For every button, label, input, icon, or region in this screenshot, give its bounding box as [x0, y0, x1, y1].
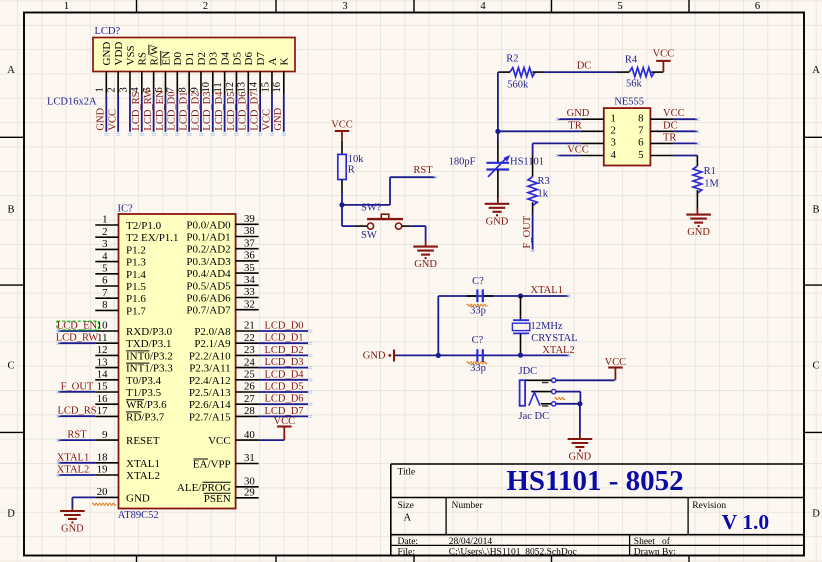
svg-text:3: 3 — [611, 137, 616, 149]
svg-text:8: 8 — [102, 299, 107, 311]
pin 36 P0.3/AD3 — [186, 250, 258, 268]
wire jack pin1 to VCC — [556, 379, 615, 381]
svg-text:P0.7/AD7: P0.7/AD7 — [186, 305, 231, 317]
svg-text:SW?: SW? — [361, 203, 382, 214]
svg-text:GND: GND — [101, 42, 113, 66]
junction jack pins 2/3 — [577, 401, 582, 406]
svg-text:4: 4 — [480, 1, 486, 12]
svg-text:15: 15 — [260, 82, 271, 93]
svg-text:LCD_D2: LCD_D2 — [190, 92, 201, 131]
svg-text:TXD/P3.1: TXD/P3.1 — [126, 338, 172, 350]
wire LCD pin 14 net LCD_D7 — [250, 92, 261, 132]
svg-text:56k: 56k — [626, 79, 643, 90]
svg-text:File:: File: — [398, 548, 415, 558]
wire LCD pin 3 — [129, 95, 131, 132]
svg-text:24: 24 — [244, 356, 255, 368]
svg-text:GND: GND — [687, 227, 710, 238]
svg-text:6: 6 — [638, 137, 644, 149]
svg-text:VCC: VCC — [108, 109, 119, 131]
VCC power port at jack — [605, 357, 627, 380]
capacitor C? 33p (top) — [467, 276, 493, 317]
svg-text:VCC: VCC — [331, 120, 353, 131]
svg-text:GND: GND — [126, 492, 150, 504]
svg-text:C: C — [812, 361, 819, 372]
pin 2 P1.1 — [95, 226, 178, 244]
wire net LCD_EN to IC pin — [57, 321, 98, 332]
svg-text:7: 7 — [638, 125, 644, 137]
svg-text:A: A — [267, 58, 279, 66]
svg-text:P1.7: P1.7 — [126, 305, 146, 317]
wire net XTAL2 — [395, 345, 575, 356]
svg-text:1: 1 — [611, 113, 616, 125]
ground at SW — [413, 247, 438, 271]
NE555 pin 6 — [638, 137, 673, 149]
wire net TR at NE555 pin6 — [663, 132, 697, 143]
pin 26 P2.5/A13 net LCD_D5 — [189, 381, 308, 399]
svg-text:19: 19 — [97, 464, 108, 476]
svg-text:VDD: VDD — [113, 42, 125, 66]
svg-text:P2.4/A12: P2.4/A12 — [189, 375, 231, 387]
pin 28 P2.7/A15 net LCD_D7 — [189, 405, 308, 423]
pin 40 VCC — [208, 429, 284, 447]
wire net LCD_RW to IC pin — [56, 333, 99, 344]
wire LCD pin 5 net LCD_RW — [143, 88, 154, 132]
svg-text:VCC: VCC — [208, 435, 231, 447]
pin 9 RESET, net RST — [58, 429, 160, 447]
pin 25 P2.4/A12 net LCD_D4 — [189, 369, 308, 387]
wire LCD pin 6 net LCD_EN — [155, 90, 166, 132]
wire end marks — [56, 118, 699, 477]
svg-text:D: D — [812, 509, 820, 520]
svg-text:P0.3/AD3: P0.3/AD3 — [186, 256, 231, 268]
svg-text:RST: RST — [413, 165, 433, 176]
svg-text:7: 7 — [102, 287, 108, 299]
svg-text:23: 23 — [244, 344, 255, 356]
svg-text:GND: GND — [96, 107, 107, 130]
junction cap branch/XTAL2 — [436, 353, 441, 358]
svg-text:Drawn By:: Drawn By: — [634, 548, 676, 558]
svg-text:P1.4: P1.4 — [126, 269, 146, 281]
svg-text:LCD_D7: LCD_D7 — [250, 92, 261, 131]
svg-text:GND: GND — [61, 524, 84, 535]
svg-text:XTAL1: XTAL1 — [126, 458, 160, 470]
wire net RST — [342, 165, 435, 205]
resistor R1 1M — [693, 156, 720, 215]
pin 30 ALE/PROG — [177, 476, 259, 494]
wire net VCC at NE555 pin8 — [663, 108, 697, 119]
svg-text:12MHz: 12MHz — [531, 321, 563, 332]
pin 11 TXD/P3.1 — [95, 332, 171, 350]
svg-text:P0.2/AD2: P0.2/AD2 — [186, 244, 230, 256]
pin 37 P0.2/AD2 — [186, 237, 258, 255]
wire LCD pin 8 net LCD_D1 — [179, 92, 190, 132]
svg-text:LCD_RW: LCD_RW — [143, 88, 154, 131]
capacitor C? 33p (bottom) — [470, 335, 486, 374]
svg-text:34: 34 — [244, 274, 255, 286]
svg-text:P2.7/A15: P2.7/A15 — [189, 411, 231, 423]
svg-text:GND: GND — [273, 107, 284, 130]
svg-text:LCD_D1: LCD_D1 — [179, 92, 190, 131]
svg-text:33: 33 — [244, 286, 255, 298]
svg-text:29: 29 — [244, 487, 255, 499]
svg-text:Number: Number — [452, 501, 484, 511]
svg-text:1: 1 — [102, 214, 107, 226]
svg-text:Date:: Date: — [398, 537, 419, 547]
svg-text:PSEN: PSEN — [204, 493, 231, 505]
svg-text:F_OUT: F_OUT — [522, 215, 533, 248]
pin 34 P0.5/AD5 — [186, 274, 258, 292]
wire LCD pin 9 net LCD_D2 — [190, 92, 201, 132]
resistor R2 560k — [498, 54, 544, 91]
svg-text:TR: TR — [568, 120, 581, 131]
pin 4 P1.3 — [95, 250, 146, 268]
svg-text:31: 31 — [244, 452, 255, 464]
svg-text:2: 2 — [102, 226, 107, 238]
svg-text:D6: D6 — [243, 52, 255, 66]
junction XTAL1/crystal — [518, 293, 523, 298]
svg-text:1k: 1k — [538, 189, 549, 200]
svg-text:Sheet of: Sheet of — [634, 536, 671, 547]
svg-text:6: 6 — [102, 275, 108, 287]
wire SW to ground — [410, 226, 425, 247]
svg-text:2: 2 — [203, 1, 208, 12]
svg-text:16: 16 — [272, 82, 283, 93]
svg-text:6: 6 — [755, 1, 760, 12]
svg-text:Size: Size — [398, 501, 414, 511]
svg-text:LCD_D5: LCD_D5 — [264, 382, 303, 393]
svg-text:R: R — [348, 165, 355, 176]
svg-text:28/04/2014: 28/04/2014 — [449, 537, 493, 547]
wire XTAL1 left branch down — [437, 296, 439, 355]
svg-text:JDC: JDC — [519, 366, 538, 377]
svg-text:VCC: VCC — [605, 357, 627, 368]
svg-text:RXD/P3.0: RXD/P3.0 — [126, 326, 173, 338]
pin 19 XTAL2 — [57, 464, 160, 482]
svg-text:EN: EN — [160, 51, 172, 66]
pin 33 P0.6/AD6 — [186, 286, 258, 304]
pin 6 P1.5 — [95, 275, 146, 293]
ground at IC pin20 — [60, 511, 85, 535]
pushbutton SW? SW — [356, 203, 411, 242]
svg-text:16: 16 — [97, 393, 108, 405]
svg-text:38: 38 — [244, 225, 255, 237]
svg-text:P2.6/A14: P2.6/A14 — [189, 399, 231, 411]
svg-text:P1.3: P1.3 — [126, 257, 146, 269]
svg-text:INT0/P3.2: INT0/P3.2 — [126, 350, 173, 362]
svg-text:T0/P3.4: T0/P3.4 — [126, 375, 162, 387]
svg-text:Jac DC: Jac DC — [519, 411, 550, 422]
svg-text:R3: R3 — [538, 176, 550, 187]
pin 10 RXD/P3.0 — [95, 320, 172, 338]
wire net VCC at NE555 pin4 — [558, 145, 589, 156]
svg-text:22: 22 — [244, 332, 255, 344]
svg-text:P2.2/A10: P2.2/A10 — [189, 350, 231, 362]
svg-text:4: 4 — [611, 149, 617, 161]
svg-text:XTAL1: XTAL1 — [57, 452, 89, 463]
svg-text:XTAL2: XTAL2 — [126, 470, 160, 482]
wire LCD pin 12 net LCD_D5 — [226, 92, 237, 132]
svg-text:AT89C52: AT89C52 — [118, 510, 159, 521]
pin 20 GND — [95, 486, 150, 504]
svg-text:C: C — [7, 361, 14, 372]
NE555 pin 4 — [581, 149, 617, 161]
ground at HS1101 — [485, 204, 510, 228]
svg-text:9: 9 — [102, 429, 107, 441]
pin 24 P2.3/A11 net LCD_D3 — [189, 356, 308, 374]
svg-text:D0: D0 — [172, 52, 184, 66]
pin 16 WR/P3.6 — [95, 393, 167, 411]
svg-text:LCD_D6: LCD_D6 — [264, 394, 303, 405]
wire net XTAL1 — [438, 285, 568, 296]
wire net TR at NE555 pin2 — [498, 120, 582, 131]
connector JDC Jac DC — [519, 366, 556, 422]
compile squiggle jack — [555, 397, 565, 399]
svg-text:V 1.0: V 1.0 — [722, 510, 769, 534]
svg-text:LCD_D4: LCD_D4 — [264, 369, 304, 380]
pin 12 INT0/P3.2 — [95, 344, 172, 362]
svg-text:3: 3 — [118, 87, 129, 92]
svg-text:14: 14 — [97, 369, 108, 381]
svg-text:LCD16x2A: LCD16x2A — [47, 97, 97, 108]
svg-text:DC: DC — [663, 120, 678, 131]
svg-text:D: D — [7, 509, 15, 520]
svg-text:LCD_RS: LCD_RS — [131, 91, 142, 130]
svg-text:P0.0/AD0: P0.0/AD0 — [186, 219, 231, 231]
svg-text:D7: D7 — [255, 52, 267, 66]
svg-text:TR: TR — [663, 132, 676, 143]
junction crystal/XTAL2 — [518, 353, 523, 358]
svg-text:LCD_D0: LCD_D0 — [167, 92, 178, 131]
svg-text:18: 18 — [97, 452, 108, 464]
svg-text:SW: SW — [361, 230, 377, 241]
pin 5 P1.4 — [95, 263, 146, 281]
svg-text:39: 39 — [244, 213, 255, 225]
wire LCD pin 1 net GND — [96, 95, 107, 132]
svg-text:DC: DC — [577, 60, 592, 71]
svg-text:LCD_D3: LCD_D3 — [202, 92, 213, 131]
svg-text:35: 35 — [244, 262, 255, 274]
svg-text:P2.0/A8: P2.0/A8 — [194, 326, 231, 338]
svg-text:IC?: IC? — [118, 204, 134, 215]
svg-text:10: 10 — [201, 82, 212, 93]
svg-text:VSS: VSS — [125, 45, 137, 65]
NE555 pin 2 — [581, 125, 616, 137]
pin 39 P0.0/AD0 — [186, 213, 258, 231]
svg-text:D4: D4 — [220, 52, 232, 66]
svg-text:NE555: NE555 — [614, 97, 644, 108]
VCC power port at R — [331, 120, 353, 141]
svg-text:40: 40 — [244, 429, 255, 441]
compile squiggle top cap — [467, 304, 487, 306]
svg-text:12: 12 — [225, 82, 236, 93]
pin 14 T0/P3.4 — [95, 369, 161, 387]
svg-text:5: 5 — [617, 1, 622, 12]
wire net F_OUT — [522, 214, 533, 251]
wire net LCD_RS to IC pin — [57, 406, 96, 417]
pin 13 INT1/P3.3 — [95, 356, 173, 374]
svg-text:26: 26 — [244, 381, 255, 393]
svg-text:P1.2: P1.2 — [126, 244, 146, 256]
svg-text:VCC: VCC — [653, 49, 675, 60]
wire pin20 to ground — [72, 497, 95, 511]
svg-text:R4: R4 — [625, 55, 638, 66]
pin 27 P2.6/A14 net LCD_D6 — [189, 393, 308, 411]
svg-text:F_OUT: F_OUT — [61, 381, 94, 392]
wire LCD pin 10 net LCD_D3 — [202, 92, 213, 132]
sensor capacitor 180pF HS1101 — [449, 131, 544, 203]
svg-text:P1.6: P1.6 — [126, 293, 146, 305]
svg-text:12: 12 — [97, 344, 108, 356]
title block — [391, 463, 804, 465]
wire jack pin3 to ground — [556, 404, 580, 439]
svg-text:LCD_D6: LCD_D6 — [238, 92, 249, 131]
resistor R 10k (box style) — [338, 141, 364, 193]
svg-text:XTAL2: XTAL2 — [57, 465, 89, 476]
svg-text:A: A — [7, 65, 15, 76]
svg-text:D5: D5 — [231, 52, 243, 66]
svg-text:8: 8 — [638, 113, 643, 125]
svg-text:HS1101 - 8052: HS1101 - 8052 — [506, 465, 683, 497]
svg-text:K: K — [279, 58, 291, 66]
svg-text:VCC: VCC — [567, 145, 589, 156]
svg-text:LCD_RS: LCD_RS — [57, 406, 96, 417]
wire jack pin2 to junction — [556, 392, 581, 404]
pin 15 T1/P3.5 — [95, 381, 161, 399]
pins 1-16 of LCD? — [95, 72, 284, 95]
svg-text:RESET: RESET — [126, 435, 160, 447]
svg-text:C:\Users\.\HS1101_8052.SchDoc: C:\Users\.\HS1101_8052.SchDoc — [449, 548, 577, 558]
wire net DC between R2 and R4 — [545, 60, 617, 72]
resistor R3 1k — [528, 155, 550, 214]
svg-text:VCC: VCC — [274, 416, 296, 427]
svg-text:T1/P3.5: T1/P3.5 — [126, 387, 162, 399]
svg-text:P0.5/AD5: P0.5/AD5 — [186, 280, 231, 292]
svg-text:P2.5/A13: P2.5/A13 — [189, 387, 231, 399]
svg-text:560k: 560k — [507, 80, 529, 91]
svg-text:P1.5: P1.5 — [126, 281, 146, 293]
GND power port (bar style) — [363, 350, 394, 362]
svg-text:LCD_D5: LCD_D5 — [226, 92, 237, 131]
svg-text:13: 13 — [97, 356, 108, 368]
svg-text:INT1/P3.3: INT1/P3.3 — [126, 363, 173, 375]
svg-text:WR/P3.6: WR/P3.6 — [126, 399, 167, 411]
crystal Y? 12MHz — [512, 296, 577, 355]
svg-text:D1: D1 — [184, 52, 196, 65]
compile squiggle bottom cap — [467, 362, 487, 364]
selection box around LCD_EN — [57, 321, 99, 330]
svg-text:LCD_D1: LCD_D1 — [264, 333, 303, 344]
wire LCD pin 11 net LCD_D4 — [214, 91, 225, 132]
svg-text:33p: 33p — [470, 306, 486, 317]
svg-text:C?: C? — [472, 335, 484, 346]
pin 32 P0.7/AD7 — [186, 298, 258, 316]
wire NE555 pin3 to R3 — [533, 143, 581, 155]
pin 23 P2.2/A10 net LCD_D2 — [189, 344, 308, 362]
svg-text:LCD_D0: LCD_D0 — [264, 321, 303, 332]
svg-text:11: 11 — [213, 82, 224, 92]
svg-text:Title: Title — [398, 468, 416, 478]
pin 3 P1.2 — [95, 238, 146, 256]
svg-text:11: 11 — [97, 332, 107, 344]
pin 1 P1.0 — [95, 214, 161, 232]
svg-text:P0.4/AD4: P0.4/AD4 — [186, 268, 231, 280]
pin 21 P2.0/A8 net LCD_D0 — [194, 320, 308, 338]
svg-text:LCD_D3: LCD_D3 — [264, 357, 303, 368]
pin 18 XTAL1 — [57, 452, 160, 470]
svg-text:GND: GND — [486, 216, 509, 227]
svg-text:13: 13 — [237, 82, 248, 93]
wire LCD pin 16 net GND — [273, 95, 284, 132]
junction R2/HS1101/TR — [495, 129, 500, 134]
resistor R4 56k — [616, 55, 663, 90]
svg-text:RS: RS — [137, 52, 149, 65]
NE555 pin 3 — [581, 137, 616, 149]
wire R bottom to junction and switch — [342, 193, 356, 226]
svg-text:P0.1/AD1: P0.1/AD1 — [186, 232, 230, 244]
ground at R1 — [686, 215, 711, 239]
pin 29 PSEN — [204, 487, 259, 505]
svg-text:28: 28 — [244, 405, 255, 417]
NE555 pin 1 — [581, 113, 616, 125]
svg-text:D2: D2 — [196, 52, 208, 65]
svg-text:LCD?: LCD? — [95, 26, 121, 37]
wire LCD pin 2 net VCC — [108, 95, 119, 132]
svg-text:1: 1 — [95, 87, 106, 92]
NE555 pin 8 — [638, 113, 673, 125]
svg-text:GND: GND — [569, 452, 592, 463]
timer U? NE555 — [604, 97, 651, 166]
wire net F_OUT to IC pin — [58, 381, 95, 392]
svg-text:37: 37 — [244, 237, 255, 249]
wire LCD pin 13 net LCD_D6 — [238, 92, 249, 132]
svg-text:P2.3/A11: P2.3/A11 — [189, 363, 230, 375]
pin 31 EA/VPP — [193, 452, 259, 470]
wire LCD pin 4 net LCD_RS — [131, 91, 142, 131]
svg-text:D3: D3 — [208, 52, 220, 66]
svg-text:GND: GND — [567, 108, 590, 119]
overline EN pin6 — [160, 51, 162, 66]
svg-text:2: 2 — [611, 125, 616, 137]
svg-text:C?: C? — [472, 276, 484, 287]
svg-text:P0.6/AD6: P0.6/AD6 — [186, 293, 231, 305]
svg-text:VCC: VCC — [261, 109, 272, 131]
svg-text:LCD_EN: LCD_EN — [155, 90, 166, 131]
jack tiny pin marks — [542, 382, 548, 384]
svg-text:LCD_D2: LCD_D2 — [264, 345, 303, 356]
svg-text:A: A — [404, 513, 412, 524]
compile squiggle pin20 — [92, 503, 116, 505]
svg-text:HS1101: HS1101 — [510, 157, 544, 168]
svg-text:27: 27 — [244, 393, 255, 405]
VCC power port at pin40 — [274, 416, 296, 440]
svg-text:32: 32 — [244, 298, 255, 310]
svg-text:21: 21 — [244, 320, 255, 332]
svg-text:3: 3 — [342, 1, 347, 12]
wire LCD pin 15 net VCC — [261, 95, 272, 132]
svg-text:10k: 10k — [348, 154, 365, 165]
svg-text:GND: GND — [414, 259, 437, 270]
svg-text:B: B — [812, 205, 819, 216]
svg-text:5: 5 — [638, 149, 643, 161]
microcontroller IC? AT89C52 — [118, 204, 236, 522]
svg-text:33p: 33p — [470, 363, 486, 374]
svg-text:EA/VPP: EA/VPP — [193, 459, 231, 471]
svg-text:P2.1/A9: P2.1/A9 — [194, 338, 231, 350]
svg-text:A: A — [812, 65, 820, 76]
svg-text:LCD_D4: LCD_D4 — [214, 91, 225, 131]
svg-text:CRYSTAL: CRYSTAL — [531, 333, 577, 344]
svg-text:T2 EX/P1.1: T2 EX/P1.1 — [126, 232, 179, 244]
